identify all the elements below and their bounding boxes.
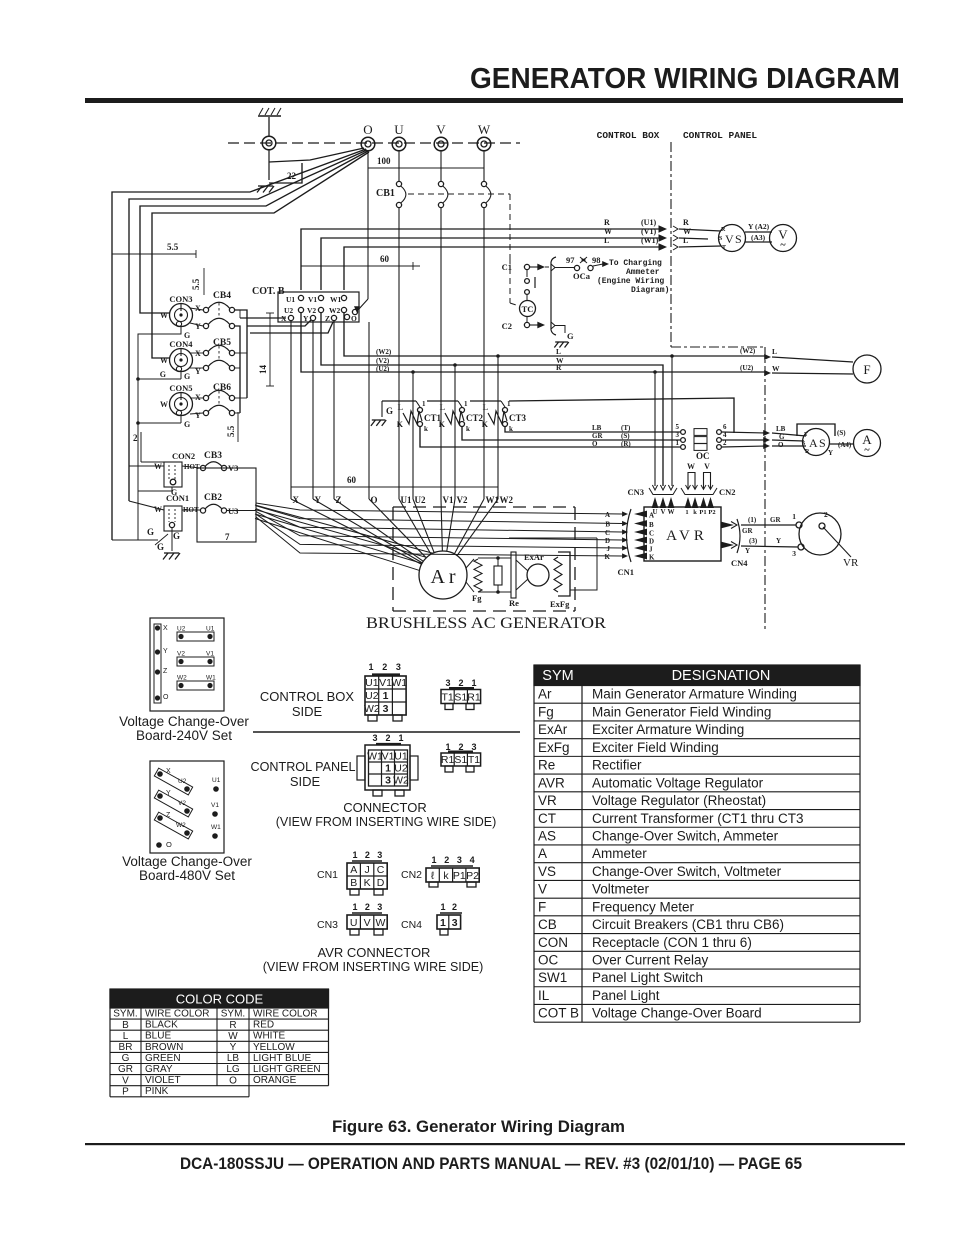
svg-text:Z: Z [163, 668, 168, 675]
svg-text:CB4: CB4 [213, 291, 231, 301]
svg-text:D: D [649, 538, 654, 546]
svg-text:CONTROL BOX: CONTROL BOX [597, 130, 660, 141]
svg-text:W: W [604, 227, 612, 236]
wire CN4 GR [741, 524, 796, 526]
svg-text:CN2: CN2 [719, 487, 736, 497]
svg-text:G: G [160, 370, 166, 379]
svg-text:SYM.: SYM. [113, 1009, 137, 1020]
svg-text:Receptacle (CON 1 thru 6): Receptacle (CON 1 thru 6) [592, 935, 752, 950]
svg-text:K: K [482, 420, 489, 429]
svg-text:To Charging: To Charging [609, 259, 662, 268]
svg-text:DESIGNATION: DESIGNATION [672, 668, 771, 684]
wire R-U1 sense [301, 229, 664, 290]
svg-text:W2: W2 [329, 306, 341, 315]
svg-text:3: 3 [676, 431, 680, 439]
wires OC to AS [722, 432, 766, 433]
svg-text:3: 3 [457, 855, 462, 865]
svg-text:DCA-180SSJU — OPERATION AND PA: DCA-180SSJU — OPERATION AND PARTS MANUAL… [180, 1155, 802, 1173]
svg-text:CN1: CN1 [617, 567, 634, 577]
wires Fg to Re [478, 557, 498, 559]
svg-text:CONTROL BOX: CONTROL BOX [260, 689, 354, 704]
wire W-V1 sense [321, 238, 664, 290]
regulator AVR box [644, 507, 721, 561]
wire CN3 drop c [671, 356, 673, 486]
svg-text:L: L [483, 403, 488, 412]
svg-text:Ammeter: Ammeter [592, 846, 647, 861]
svg-text:CON4: CON4 [169, 339, 193, 349]
svg-text:CONNECTOR: CONNECTOR [343, 800, 427, 815]
svg-text:W1: W1 [330, 295, 342, 304]
svg-text:(S): (S) [621, 432, 630, 440]
switch AS [797, 424, 835, 436]
svg-text:C: C [377, 864, 385, 876]
svg-text:VR: VR [843, 557, 859, 569]
wire V2 drop [454, 365, 456, 499]
wires VS to V [745, 231, 772, 233]
svg-text:2: 2 [385, 733, 390, 743]
wire dashed terminal bus [228, 142, 520, 144]
svg-text:U2: U2 [415, 495, 426, 505]
svg-text:T: T [804, 432, 808, 438]
wire AS to A [830, 443, 854, 445]
wire V hook to CN2 [704, 473, 711, 490]
svg-text:3: 3 [396, 662, 401, 672]
svg-text:F: F [863, 362, 870, 377]
dashed box brushless generator [393, 506, 575, 508]
svg-text:(W1): (W1) [641, 236, 659, 245]
svg-text:Y: Y [828, 449, 833, 457]
svg-text:P: P [122, 1086, 129, 1097]
svg-text:LIGHT GREEN: LIGHT GREEN [253, 1064, 321, 1075]
wire O drop [368, 322, 370, 499]
svg-text:97: 97 [566, 255, 575, 265]
svg-text:G: G [122, 1053, 130, 1064]
svg-text:X: X [195, 393, 201, 402]
svg-text:AVR CONNECTOR: AVR CONNECTOR [318, 945, 431, 960]
svg-text:Re: Re [509, 598, 519, 608]
svg-text:X: X [195, 349, 201, 358]
svg-text:J: J [649, 546, 653, 554]
svg-text:1: 1 [431, 855, 436, 865]
svg-text:Over Current Relay: Over Current Relay [592, 953, 709, 968]
svg-text:Change-Over Switch, Ammeter: Change-Over Switch, Ammeter [592, 828, 779, 843]
svg-text:V: V [704, 462, 710, 471]
svg-text:X: X [163, 625, 168, 632]
svg-text:CB1: CB1 [376, 188, 395, 199]
svg-text:W: W [160, 356, 168, 365]
svg-text:W: W [228, 1031, 238, 1042]
svg-text:W: W [160, 400, 168, 409]
wire V vertical [440, 150, 442, 181]
svg-text:Frequency Meter: Frequency Meter [592, 899, 695, 914]
svg-text:L: L [440, 403, 445, 412]
svg-text:A: A [649, 512, 654, 520]
svg-text:Panel Light: Panel Light [592, 988, 660, 1003]
svg-text:1: 1 [352, 902, 357, 912]
svg-text:5.5: 5.5 [191, 278, 201, 290]
wires ExFg to CN1 [509, 537, 597, 539]
overcurrent relay OC [681, 430, 686, 435]
svg-text:K: K [364, 877, 371, 889]
svg-text:Y (A2): Y (A2) [748, 222, 770, 231]
svg-text:R: R [683, 218, 689, 227]
svg-text:(VIEW FROM INSERTING WIRE SIDE: (VIEW FROM INSERTING WIRE SIDE) [263, 960, 484, 974]
wire O to earth terminal [269, 148, 364, 162]
svg-text:2: 2 [382, 662, 387, 672]
svg-text:W: W [478, 122, 491, 137]
svg-text:ExAr: ExAr [538, 722, 568, 737]
svg-text:(A4): (A4) [838, 441, 852, 449]
svg-text:O: O [166, 840, 172, 849]
svg-text:OCa: OCa [573, 271, 591, 281]
svg-text:2: 2 [458, 678, 463, 688]
svg-text:P1: P1 [699, 509, 706, 516]
wire O fan 3 [140, 151, 368, 313]
svg-text:Fg: Fg [538, 704, 554, 719]
svg-text:CT: CT [538, 811, 556, 826]
svg-text:Y: Y [776, 537, 781, 545]
svg-text:CN3: CN3 [627, 487, 644, 497]
svg-text:60: 60 [380, 254, 390, 264]
svg-text:U: U [394, 122, 404, 137]
wire CB5 to Z [250, 322, 333, 333]
svg-text:Panel Light Switch: Panel Light Switch [592, 970, 703, 985]
svg-text:ExFg: ExFg [550, 599, 570, 609]
svg-text:3: 3 [372, 733, 377, 743]
svg-text:OC: OC [538, 953, 559, 968]
svg-text:2: 2 [824, 510, 828, 519]
junction dots bus [411, 370, 415, 374]
wire O fan 2 [129, 150, 367, 501]
voltage change-over board 240V [150, 618, 224, 711]
wire O fan 4 [152, 152, 369, 358]
svg-text:2: 2 [452, 902, 457, 912]
svg-text:AVR: AVR [666, 528, 708, 544]
svg-text:J: J [364, 864, 369, 876]
svg-text:(VIEW FROM INSERTING WIRE SIDE: (VIEW FROM INSERTING WIRE SIDE) [276, 815, 497, 829]
svg-text:CB5: CB5 [213, 338, 231, 348]
svg-text:S1: S1 [454, 691, 467, 703]
svg-text:CN4: CN4 [731, 558, 748, 568]
svg-text:C: C [649, 530, 654, 538]
svg-text:LIGHT BLUE: LIGHT BLUE [253, 1053, 311, 1064]
svg-text:L: L [604, 236, 609, 245]
wire CB1 tie dashed [408, 193, 510, 195]
connector CN2 schematic [681, 488, 717, 495]
svg-text:Y: Y [230, 1042, 237, 1053]
svg-text:U: U [350, 917, 358, 929]
svg-text:V: V [660, 508, 665, 516]
svg-text:C1: C1 [502, 262, 512, 272]
svg-text:W: W [160, 311, 168, 320]
svg-text:SW1: SW1 [538, 970, 567, 985]
current transformer CT3 [488, 411, 507, 424]
svg-text:CB3: CB3 [204, 451, 222, 461]
svg-text:BLUE: BLUE [145, 1031, 171, 1042]
svg-text:k: k [693, 509, 697, 516]
svg-text:1: 1 [685, 509, 688, 516]
svg-text:G: G [157, 542, 164, 552]
svg-text:R1: R1 [441, 754, 455, 766]
svg-text:Current Transformer (CT1 thru: Current Transformer (CT1 thru CT3 [592, 811, 804, 826]
svg-text:CON5: CON5 [169, 383, 192, 393]
svg-text:Y: Y [195, 322, 201, 331]
svg-text:Board-480V Set: Board-480V Set [139, 868, 235, 883]
svg-text:WIRE COLOR: WIRE COLOR [253, 1009, 317, 1020]
svg-text:W2: W2 [364, 703, 380, 715]
svg-text:C: C [605, 529, 610, 537]
svg-text:G: G [779, 433, 785, 441]
svg-text:CN3: CN3 [317, 919, 338, 931]
wire CN4 Y [741, 546, 798, 547]
wire L-W1 sense [344, 247, 664, 290]
svg-text:SIDE: SIDE [290, 774, 321, 789]
svg-text:G: G [184, 420, 190, 429]
svg-text:B: B [350, 877, 357, 889]
field winding Fg [466, 559, 474, 568]
svg-text:(W2): (W2) [740, 347, 756, 355]
svg-text:P1: P1 [453, 870, 466, 882]
svg-text:CONTROL PANEL: CONTROL PANEL [683, 130, 757, 141]
svg-text:V1: V1 [206, 651, 214, 658]
terminal E [262, 136, 276, 150]
svg-text:Circuit Breakers (CB1 thru CB6: Circuit Breakers (CB1 thru CB6) [592, 917, 784, 932]
svg-text:D: D [377, 877, 385, 889]
svg-text:1: 1 [676, 439, 680, 447]
svg-text:3: 3 [383, 703, 389, 715]
svg-text:CT3: CT3 [509, 413, 527, 423]
svg-text:7: 7 [225, 532, 230, 542]
svg-text:1: 1 [398, 733, 403, 743]
svg-text:60: 60 [347, 475, 357, 485]
svg-text:V2: V2 [177, 651, 185, 658]
svg-text:VS: VS [538, 864, 556, 879]
svg-text:L: L [123, 1031, 129, 1042]
svg-text:Voltage Change-Over Board: Voltage Change-Over Board [592, 1006, 762, 1021]
svg-text:VR: VR [538, 793, 557, 808]
svg-text:5: 5 [676, 423, 680, 431]
svg-text:G: G [567, 331, 574, 341]
frequency meter F [853, 355, 881, 383]
svg-text:U1: U1 [212, 777, 221, 784]
wire box CB2 CB3 [197, 468, 256, 542]
svg-text:Main Generator Armature Windin: Main Generator Armature Winding [592, 687, 797, 702]
svg-text:W2: W2 [176, 822, 186, 829]
svg-text:3: 3 [377, 850, 382, 860]
svg-text:1: 1 [352, 850, 357, 860]
svg-text:L: L [772, 347, 777, 356]
svg-text:CN1: CN1 [317, 869, 338, 881]
svg-text:U1: U1 [286, 295, 295, 304]
svg-text:D: D [605, 537, 610, 545]
svg-text:6: 6 [723, 423, 727, 431]
svg-text:AVR: AVR [538, 775, 565, 790]
svg-text:BRUSHLESS AC GENERATOR: BRUSHLESS AC GENERATOR [366, 615, 607, 632]
svg-text:Voltage Regulator (Rheostat): Voltage Regulator (Rheostat) [592, 793, 766, 808]
svg-text:W: W [683, 227, 691, 236]
wires CON to CB [190, 308, 203, 310]
svg-text:U1: U1 [365, 677, 379, 689]
armature Ar [419, 551, 467, 599]
svg-text:GR: GR [118, 1064, 133, 1075]
svg-text:B: B [649, 521, 654, 529]
wire V2 bus [321, 313, 663, 486]
svg-text:CONTROL PANEL: CONTROL PANEL [251, 760, 356, 774]
svg-text:V2: V2 [457, 495, 468, 505]
svg-text:U2: U2 [177, 626, 186, 633]
svg-text:A: A [809, 436, 818, 450]
svg-text:(T): (T) [621, 424, 631, 432]
svg-text:LG: LG [226, 1064, 240, 1075]
svg-text:G: G [147, 527, 154, 537]
svg-text:COLOR CODE: COLOR CODE [176, 992, 264, 1007]
svg-text:(3): (3) [749, 537, 758, 545]
wire CT1 secondary [420, 426, 680, 447]
svg-text:CON1: CON1 [166, 493, 189, 503]
wires fan to Ar [291, 499, 422, 564]
svg-text:B: B [122, 1020, 129, 1031]
svg-text:Y: Y [166, 790, 171, 797]
svg-text:98: 98 [592, 255, 601, 265]
svg-text:3: 3 [792, 549, 796, 558]
svg-text:14: 14 [258, 365, 268, 375]
svg-text:2: 2 [365, 850, 370, 860]
wire CON2 G [138, 487, 172, 491]
wire CB4 to Y [247, 320, 311, 326]
svg-text:LB: LB [592, 424, 602, 432]
svg-text:T1: T1 [468, 754, 480, 766]
svg-text:Figure 63. Generator Wiring Di: Figure 63. Generator Wiring Diagram [332, 1118, 625, 1136]
footer rule [85, 1143, 905, 1145]
transformer TC [526, 270, 528, 277]
wires to CN1 [256, 503, 622, 514]
svg-text:Automatic Voltage Regulator: Automatic Voltage Regulator [592, 775, 764, 790]
svg-text:3: 3 [385, 774, 391, 786]
svg-text:VIOLET: VIOLET [145, 1075, 181, 1086]
svg-text:GRAY: GRAY [145, 1064, 173, 1075]
svg-text:C2: C2 [502, 321, 512, 331]
svg-text:ExAr: ExAr [524, 552, 544, 562]
svg-text:U1: U1 [206, 626, 215, 633]
wire CT2 secondary [462, 426, 680, 440]
svg-text:Y: Y [163, 648, 168, 655]
svg-text:2: 2 [365, 902, 370, 912]
svg-text:WIRE COLOR: WIRE COLOR [145, 1009, 209, 1020]
svg-text:(R): (R) [621, 440, 631, 448]
svg-text:GREEN: GREEN [145, 1053, 181, 1064]
wire W hook to CN2 [688, 473, 695, 490]
ammeter A [854, 430, 881, 457]
svg-text:CB: CB [538, 917, 557, 932]
svg-text:GR: GR [592, 432, 603, 440]
svg-text:Change-Over Switch, Voltmeter: Change-Over Switch, Voltmeter [592, 864, 782, 879]
wire Z drop [333, 321, 335, 499]
svg-text:B: B [605, 521, 610, 529]
wire CT L bus [382, 400, 416, 402]
svg-text:A r: A r [431, 566, 456, 588]
svg-text:O: O [778, 441, 784, 449]
wires CB box to Ar [255, 505, 433, 553]
svg-text:O: O [351, 314, 357, 323]
svg-text:PINK: PINK [145, 1086, 169, 1097]
svg-text:U2: U2 [178, 778, 187, 785]
svg-text:4: 4 [470, 855, 475, 865]
svg-text:R: R [556, 363, 562, 372]
svg-text:L: L [398, 403, 403, 412]
svg-text:O: O [592, 440, 598, 448]
svg-text:Fg: Fg [472, 593, 482, 603]
svg-text:SIDE: SIDE [292, 704, 323, 719]
svg-text:ExFg: ExFg [538, 740, 570, 755]
wire W vertical [483, 150, 485, 181]
wire X drop [290, 321, 292, 499]
wire CON1 W [129, 501, 164, 510]
svg-text:T1: T1 [441, 691, 453, 703]
sym designation table [534, 665, 860, 686]
boundary dash-dot line [670, 142, 672, 347]
svg-text:L: L [683, 236, 688, 245]
svg-text:A: A [538, 846, 547, 861]
svg-text:GR: GR [742, 527, 753, 535]
current transformer CT1 [403, 411, 422, 424]
svg-text:V1: V1 [211, 802, 219, 809]
svg-text:k: k [466, 425, 470, 433]
svg-text:1: 1 [383, 690, 389, 702]
svg-text:K: K [649, 554, 655, 562]
svg-text:V1: V1 [382, 750, 395, 762]
svg-text:P2: P2 [466, 870, 479, 882]
svg-text:5.5: 5.5 [226, 425, 236, 437]
svg-text:F: F [538, 899, 546, 914]
dimension 5.5 horizontal [112, 253, 196, 255]
svg-text:P2: P2 [708, 509, 715, 516]
svg-text:Ar: Ar [538, 687, 552, 702]
title rule [85, 98, 903, 103]
svg-text:O: O [163, 694, 169, 701]
svg-text:LB: LB [776, 425, 786, 433]
svg-text:V: V [364, 917, 371, 929]
svg-text:ORANGE: ORANGE [253, 1075, 297, 1086]
svg-text:W2: W2 [500, 495, 514, 505]
svg-text:K: K [439, 420, 446, 429]
svg-text:O: O [363, 122, 372, 137]
svg-text:CON: CON [538, 935, 568, 950]
svg-text:L: L [556, 347, 561, 356]
svg-text:R1: R1 [467, 691, 481, 703]
svg-text:R: R [721, 227, 726, 233]
svg-text:Z: Z [325, 314, 330, 323]
wire W2 bus [344, 313, 766, 356]
wire OCa contact [530, 266, 539, 268]
ground TC [554, 342, 558, 348]
svg-text:BLACK: BLACK [145, 1020, 178, 1031]
svg-text:(S): (S) [837, 429, 846, 437]
svg-text:5.5: 5.5 [167, 242, 179, 252]
svg-text:U1: U1 [394, 750, 408, 762]
svg-text:Voltage Change-Over: Voltage Change-Over [122, 854, 252, 869]
rheostat VR [799, 513, 841, 555]
svg-text:J: J [607, 545, 611, 553]
wire U2 drop [412, 372, 414, 499]
svg-text:1: 1 [792, 512, 796, 521]
svg-text:Voltage Change-Over: Voltage Change-Over [119, 714, 249, 729]
divider connector sections [253, 731, 520, 733]
svg-text:A: A [605, 511, 610, 519]
svg-text:Y: Y [303, 314, 309, 323]
svg-text:COT B: COT B [538, 1006, 579, 1021]
svg-text:U2: U2 [394, 762, 408, 774]
svg-text:IL: IL [538, 988, 550, 1003]
